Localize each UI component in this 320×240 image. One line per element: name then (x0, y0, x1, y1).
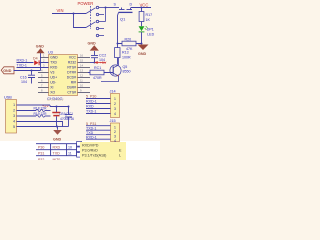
transistor Q5 (101, 58, 131, 82)
svg-text:3: 3 (114, 135, 116, 139)
connector USB (4, 96, 17, 133)
svg-text:USB: USB (4, 96, 12, 100)
connector J14 (110, 90, 120, 118)
svg-text:470R: 470R (93, 76, 102, 80)
svg-text:R20: R20 (125, 38, 132, 42)
junction gnd drop (56, 126, 58, 128)
svg-text:TXD: TXD (50, 60, 57, 64)
ground (right of LED) (138, 45, 149, 57)
capacitor CC2 104 (91, 51, 106, 63)
svg-text:470uF/50V: 470uF/50V (47, 98, 64, 102)
svg-text:1: 1 (114, 97, 116, 101)
node TXD-1 (J14) (86, 110, 111, 114)
svg-text:10: 10 (80, 84, 83, 88)
IC left pin stubs (38, 58, 49, 93)
svg-text:GND: GND (50, 55, 58, 59)
svg-text:R17: R17 (146, 13, 153, 17)
svg-text:UD+: UD+ (50, 75, 57, 79)
svg-text:U3: U3 (48, 51, 53, 55)
junction VCC (141, 7, 143, 9)
wire switch to Q1 (106, 7, 120, 9)
svg-text:4: 4 (114, 112, 116, 116)
svg-text:2: 2 (114, 102, 116, 106)
node TXD-1 (17, 64, 49, 68)
ground (USB caps) (53, 127, 62, 142)
svg-text:1: 1 (13, 103, 15, 107)
svg-text:VCC: VCC (140, 2, 149, 7)
svg-text:GND: GND (53, 138, 62, 142)
svg-text:XO: XO (50, 90, 55, 94)
node RXD-1 (J15) (86, 135, 111, 139)
ground (above pin1) (36, 45, 45, 54)
junction cap rail left (56, 106, 58, 108)
IC U3 CH340G (38, 51, 90, 101)
node +5V (power arrow) (95, 61, 107, 65)
wire VIN to switch (52, 14, 86, 28)
node RXD-1 (17, 59, 34, 63)
svg-text:100R: 100R (122, 55, 131, 59)
port GND (left) (1, 67, 14, 74)
svg-text:8550: 8550 (123, 70, 131, 74)
resistor R18 22R (17, 107, 51, 112)
svg-text:RXD/VPD: RXD/VPD (82, 144, 99, 148)
table pin list (36, 144, 78, 162)
svg-text:14: 14 (80, 64, 83, 68)
wire USB GND (17, 122, 63, 127)
table notes (yellow) (77, 142, 126, 161)
resistor R13 100R (115, 48, 131, 65)
svg-text:L: L (119, 154, 121, 158)
svg-text:V3: V3 (50, 70, 54, 74)
svg-text:VIN: VIN (57, 8, 64, 13)
connector J15 (110, 119, 120, 143)
wire LED to gnd node (141, 32, 143, 44)
svg-text:J15: J15 (110, 119, 116, 123)
pin 5 stub (17, 126, 57, 128)
IC pin numbers (41, 54, 83, 93)
table cells (left of notes) (77, 142, 82, 158)
wire Q1 drain to VCC (131, 7, 151, 9)
svg-text:D4: D4 (33, 57, 38, 61)
junction cap rail right (68, 106, 70, 108)
svg-text:12: 12 (80, 74, 83, 78)
svg-text:RTS#: RTS# (67, 65, 76, 69)
page margin (white) (0, 141, 160, 160)
svg-text:P3.1/TxD(A18): P3.1/TxD(A18) (82, 154, 106, 158)
junction gate/47K (117, 43, 119, 45)
svg-text:C16: C16 (20, 75, 27, 79)
wire R232 pin to +5V node (90, 62, 95, 64)
svg-text:POWER: POWER (78, 1, 94, 6)
wire GND port to pin1 (14, 53, 41, 71)
svg-text:XI: XI (50, 85, 53, 89)
junction +5V node (94, 62, 96, 64)
node TXD-1 (J15) (86, 126, 111, 130)
switch S1 POWER (78, 1, 106, 37)
wire cap bottom rail (57, 126, 69, 128)
node RXD (86, 105, 111, 109)
svg-text:P32: P32 (38, 158, 44, 160)
node VCC (140, 2, 149, 7)
svg-text:11: 11 (68, 151, 72, 155)
svg-text:104: 104 (21, 80, 27, 84)
svg-text:1K: 1K (146, 18, 151, 22)
svg-text:RXD: RXD (50, 65, 58, 69)
IC right pin stubs (78, 58, 91, 93)
svg-text:P30: P30 (38, 146, 44, 150)
svg-text:Q1: Q1 (120, 17, 126, 22)
svg-text:DSR#: DSR# (67, 85, 76, 89)
svg-text:P31: P31 (38, 152, 44, 156)
svg-text:RXD: RXD (53, 146, 61, 150)
svg-text:CC2: CC2 (99, 53, 106, 57)
svg-text:TXD: TXD (53, 152, 61, 156)
svg-text:D: D (130, 3, 133, 7)
svg-text:R13: R13 (122, 51, 129, 55)
junction gnd node (141, 43, 143, 45)
svg-text:470uF/16: 470uF/16 (60, 117, 74, 121)
node VIN (57, 8, 64, 13)
svg-text:R232: R232 (68, 60, 76, 64)
node TXD (86, 131, 111, 135)
svg-text:5: 5 (13, 125, 15, 129)
svg-text:+5V: +5V (100, 61, 107, 65)
node RXD-1 (J14) (86, 100, 111, 104)
LED DP1 (139, 26, 155, 36)
svg-text:13: 13 (80, 69, 83, 73)
ground (above CC2) (88, 41, 99, 50)
resistor RC1 470R (88, 66, 113, 80)
svg-text:1: 1 (114, 126, 116, 130)
svg-text:10: 10 (68, 145, 72, 149)
node 5_P30 (86, 95, 111, 99)
svg-text:3: 3 (13, 114, 15, 118)
diode D4 (33, 57, 49, 65)
svg-text:RC1: RC1 (94, 66, 101, 70)
transistor Q1 (P-MOSFET) (114, 3, 133, 22)
wire USB VBUS rail (17, 105, 69, 107)
resistor R19 22R (17, 112, 51, 117)
svg-text:Q5: Q5 (123, 65, 128, 69)
capacitor CC1 (65, 107, 72, 127)
svg-text:DP1: DP1 (147, 28, 154, 32)
svg-text:CTS#: CTS# (67, 90, 76, 94)
svg-text:DCD#: DCD# (67, 75, 76, 79)
svg-text:VCC: VCC (69, 55, 77, 59)
svg-text:P3.0/RxD: P3.0/RxD (82, 149, 98, 153)
svg-text:2: 2 (114, 130, 116, 134)
svg-text:RI#: RI# (71, 80, 76, 84)
svg-text:15: 15 (80, 59, 83, 63)
svg-text:DTR#: DTR# (67, 70, 76, 74)
junction switch out (105, 7, 107, 9)
resistor R20 47K (118, 38, 142, 51)
svg-text:J14: J14 (110, 90, 116, 94)
junction C16 top (31, 70, 33, 72)
wire Q1 gate down (117, 16, 119, 49)
junction VIN (73, 13, 75, 15)
node 5_P31 (86, 122, 111, 126)
svg-text:GND: GND (3, 69, 12, 73)
svg-text:UD-: UD- (50, 80, 56, 84)
svg-text:INT0: INT0 (53, 158, 61, 160)
svg-text:GND: GND (36, 45, 44, 49)
capacitor C16 104 (20, 71, 35, 85)
svg-text:GND: GND (138, 52, 147, 56)
svg-text:3: 3 (114, 107, 116, 111)
svg-text:4: 4 (13, 120, 15, 124)
svg-text:LED: LED (147, 32, 154, 36)
svg-text:16: 16 (80, 54, 83, 58)
svg-text:2: 2 (13, 109, 15, 113)
svg-text:GND: GND (88, 41, 97, 45)
resistor R17 1K (139, 8, 152, 27)
capacitor CB1 (electrolytic) (52, 107, 74, 127)
